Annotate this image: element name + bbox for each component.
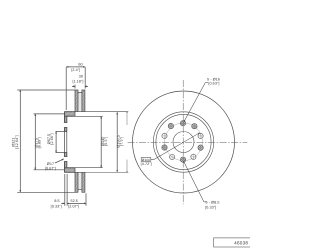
svg-text:[2.4"]: [2.4"] — [71, 68, 80, 72]
section outline: arm edges — [65, 111, 76, 113]
bore edge ticks — [65, 130, 67, 132]
svg-text:60: 60 — [78, 63, 82, 67]
hat arm top (hatched) — [65, 112, 76, 117]
horizontal small labels — [45, 63, 84, 209]
svg-text:[4.72"]: [4.72"] — [141, 162, 152, 166]
dim 60 [2.4"] top — [65, 67, 67, 110]
part number box — [214, 238, 252, 247]
rotor friction ring top block (hatched plates) — [75, 90, 85, 112]
bolt holes: open — [162, 133, 203, 159]
svg-text:5 - Ø8.5: 5 - Ø8.5 — [206, 201, 220, 205]
svg-text:8.5: 8.5 — [54, 199, 59, 203]
dims 8.5 / 52.5 bottom — [64, 174, 66, 206]
rotated dimension labels — [12, 133, 124, 148]
hole centermarks — [161, 120, 203, 163]
svg-text:52.5: 52.5 — [70, 199, 78, 203]
dim outer ext lines to x=127 — [85, 111, 128, 113]
svg-text:[1.18"]: [1.18"] — [72, 79, 83, 83]
bolt holes: hatched — [162, 121, 204, 163]
dim O140 — [67, 115, 103, 117]
svg-text:[0.33"]: [0.33"] — [51, 205, 62, 209]
svg-text:[7.5"]: [7.5"] — [120, 137, 124, 146]
svg-text:[12.64"]: [12.64"] — [15, 135, 19, 148]
svg-text:[6.89"]: [6.89"] — [38, 137, 42, 148]
rotor friction ring bottom block (hatched plates) — [75, 172, 85, 192]
leaders front view — [141, 83, 208, 202]
hat arm bottom (hatched) — [65, 168, 76, 173]
svg-text:[0.63"]: [0.63"] — [208, 82, 219, 86]
svg-text:[2.07"]: [2.07"] — [68, 205, 79, 209]
svg-text:[0.33"]: [0.33"] — [205, 205, 216, 209]
bolt circle — [165, 123, 203, 161]
svg-text:[2.66"]: [2.66"] — [50, 133, 54, 144]
center bore — [173, 132, 194, 153]
svg-text:30: 30 — [79, 75, 83, 79]
mounting flange (hatched, with bolt holes and bore gaps) — [65, 116, 67, 122]
hub circle — [156, 114, 211, 169]
svg-text:[5.5"]: [5.5"] — [104, 137, 108, 146]
O17 leader — [55, 159, 64, 163]
dim O175 — [34, 113, 65, 115]
svg-text:[0.67"]: [0.67"] — [45, 166, 56, 170]
center lines — [128, 80, 248, 204]
dim O190.5 — [116, 112, 118, 172]
svg-text:46038: 46038 — [234, 240, 248, 245]
dim O67.5 bracket — [56, 130, 65, 132]
vent channel (lighter hatch) — [78, 93, 82, 112]
friction surface inner circle — [153, 112, 213, 172]
ring top block outline — [75, 90, 85, 112]
dim O321 left — [17, 89, 75, 91]
front view labels — [141, 77, 220, 209]
flange outline lines — [64, 112, 66, 123]
outer circle — [133, 91, 235, 193]
ring bottom block outline — [75, 172, 85, 192]
bolt hole edge ticks in flange — [64, 121, 68, 123]
dim 30 [1.18"] — [74, 85, 76, 89]
